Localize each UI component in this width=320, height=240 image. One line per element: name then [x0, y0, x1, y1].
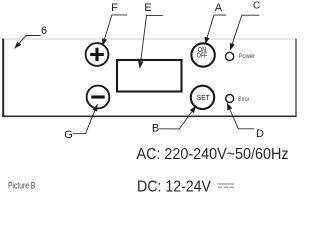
svg-text:Picture B: Picture B [8, 181, 35, 191]
svg-text:B: B [152, 122, 159, 134]
svg-text:F: F [111, 2, 118, 14]
svg-text:SET: SET [197, 95, 211, 102]
svg-text:AC: 220-240V~50/60Hz: AC: 220-240V~50/60Hz [137, 146, 289, 163]
svg-text:OFF: OFF [197, 53, 207, 60]
svg-text:DC: 12-24V: DC: 12-24V [137, 178, 212, 195]
svg-text:C: C [253, 1, 260, 12]
svg-text:6: 6 [41, 25, 47, 37]
svg-text:Power: Power [239, 53, 255, 60]
svg-text:A: A [215, 2, 223, 14]
svg-text:D: D [256, 128, 264, 140]
svg-text:G: G [64, 129, 73, 141]
svg-text:E: E [144, 2, 151, 14]
svg-text:Error: Error [238, 96, 249, 103]
